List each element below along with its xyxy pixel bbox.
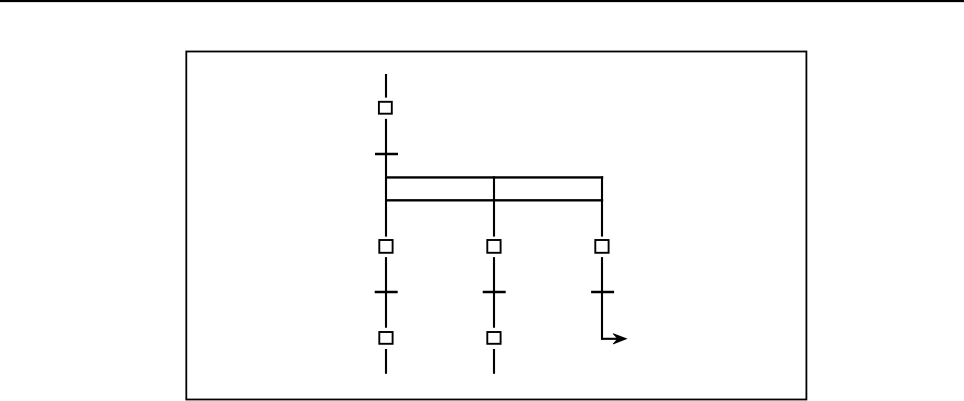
transition T1 [375, 153, 398, 156]
step S3 (branch 2, row 1) [487, 240, 500, 253]
step S5 (branch 1, row 2) [379, 332, 392, 344]
wire: branch 2 through transition 3 [493, 257, 495, 328]
step S1 (initial step) [379, 102, 392, 114]
parallel divergence bar (upper line) [385, 176, 603, 178]
wire: branch 2 drop from bar [493, 176, 495, 236]
transition T4 (branch 3) [591, 291, 614, 294]
transition T2 (branch 1) [375, 291, 398, 294]
step S2 (branch 1, row 1) [379, 240, 392, 253]
step S4 (branch 3, row 1) [595, 240, 608, 253]
jump arrowhead [613, 334, 626, 344]
wire: entry line above step 1 [385, 74, 387, 98]
wire: branch 2 tail stub [493, 349, 495, 374]
wire: branch 3 elbow to jump arrow [601, 338, 619, 340]
parallel divergence bar (lower line) [385, 199, 603, 201]
transition T3 (branch 2) [483, 291, 506, 294]
wire: step 1 down through transition 1 to parallel bar and branch 1 step [385, 119, 387, 237]
wire: branch 3 through transition 4 down to elbow [601, 257, 603, 340]
wire: branch 1 tail stub [385, 349, 387, 374]
step S6 (branch 2, row 2) [487, 332, 500, 344]
wire: branch 3 drop from bar [601, 176, 603, 236]
wire: branch 1 through transition 2 [385, 257, 387, 328]
